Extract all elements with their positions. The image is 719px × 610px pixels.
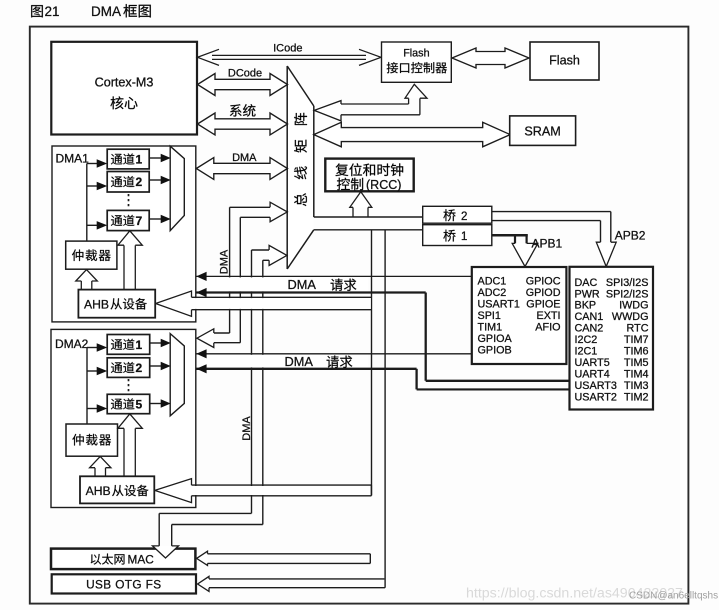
svg-text:DMA: DMA bbox=[285, 354, 314, 369]
svg-text:DMA2: DMA2 bbox=[55, 337, 89, 351]
svg-text:1: 1 bbox=[461, 231, 467, 243]
svg-text:UART4: UART4 bbox=[575, 368, 610, 380]
arrow DCode bbox=[198, 74, 288, 96]
box DMA1 channel 1 bbox=[107, 149, 149, 169]
wire DMA request 1 thin to APB1 bbox=[196, 272, 472, 281]
svg-text:AHB: AHB bbox=[86, 484, 111, 498]
arrow AHB slave 2 to channel 5 bbox=[118, 414, 142, 476]
pipe AHB slave 2 (from channel C to DMA2 AHB slave) bbox=[155, 479, 372, 503]
box DMA2 channel 5 bbox=[107, 394, 150, 413]
box DMA1 bbox=[52, 146, 196, 322]
svg-text:USART1: USART1 bbox=[478, 298, 520, 310]
svg-text:ICode: ICode bbox=[273, 42, 302, 54]
wire bridge1 to APB1 arrow (thick) bbox=[492, 234, 528, 244]
svg-text:DMA: DMA bbox=[288, 277, 317, 292]
svg-text:APB1: APB1 bbox=[532, 236, 563, 250]
box DMA2 channel 1 bbox=[107, 335, 150, 355]
svg-text:2: 2 bbox=[136, 361, 143, 375]
svg-text:IWDG: IWDG bbox=[619, 300, 648, 312]
box AHB slave 2 bbox=[80, 476, 154, 503]
svg-text:Flash: Flash bbox=[403, 48, 429, 60]
svg-text:GPIOD: GPIOD bbox=[526, 287, 561, 299]
pipe P1 hook arrow into DMA2 bbox=[197, 329, 240, 348]
box Flash bbox=[530, 42, 599, 80]
vertical label DMA (upper) bbox=[218, 249, 230, 274]
wires DMA2 channels to mux bbox=[150, 339, 171, 408]
svg-text:DAC: DAC bbox=[575, 277, 598, 289]
box SRAM bbox=[510, 116, 576, 145]
svg-text:SPI3/I2S: SPI3/I2S bbox=[606, 277, 649, 289]
svg-text:TIM1: TIM1 bbox=[478, 321, 503, 333]
box arbiter 2 bbox=[66, 424, 118, 456]
svg-text:USB OTG FS: USB OTG FS bbox=[86, 578, 161, 592]
svg-text:USART2: USART2 bbox=[575, 391, 617, 403]
arrow to RCC bbox=[350, 192, 372, 217]
arrow down into ethernet MAC bbox=[153, 546, 179, 558]
box DMA2 bbox=[51, 329, 196, 507]
wire DMA request 2 thin to APB1 bbox=[196, 349, 472, 358]
svg-text:(RCC): (RCC) bbox=[366, 178, 401, 192]
wires arbiter1 to channels bbox=[87, 159, 107, 241]
DMA request band 1 mask bbox=[205, 277, 368, 291]
box arbiter 1 bbox=[66, 241, 117, 269]
svg-text:SPI2/I2S: SPI2/I2S bbox=[606, 288, 649, 300]
svg-text:ADC2: ADC2 bbox=[478, 287, 507, 299]
svg-text:7: 7 bbox=[136, 214, 143, 228]
label DMA request 1 bbox=[288, 277, 357, 292]
svg-text:TIM5: TIM5 bbox=[624, 357, 649, 369]
svg-text:APB2: APB2 bbox=[615, 229, 646, 243]
arrow AHB slave 2 to arbiter 2 bbox=[90, 456, 111, 476]
svg-text:DCode: DCode bbox=[228, 67, 262, 79]
svg-text:AFIO: AFIO bbox=[535, 321, 560, 333]
svg-text:5: 5 bbox=[136, 397, 143, 411]
svg-text:PWR: PWR bbox=[575, 288, 600, 300]
box AHB slave 1 bbox=[78, 290, 155, 318]
svg-text:1: 1 bbox=[136, 152, 143, 166]
svg-text:I2C2: I2C2 bbox=[575, 334, 598, 346]
arrow AHB slave 1 to channel 7 bbox=[118, 231, 142, 290]
box Flash interface controller bbox=[382, 42, 452, 82]
box DMA2 channel 2 bbox=[107, 358, 150, 378]
svg-text:USART3: USART3 bbox=[575, 380, 617, 392]
svg-text:DMA: DMA bbox=[241, 416, 253, 441]
DMA request band 2 mask bbox=[205, 355, 368, 368]
svg-text:RTC: RTC bbox=[627, 323, 649, 335]
arrow right into ethernet MAC bbox=[197, 551, 208, 565]
svg-text:WWDG: WWDG bbox=[612, 311, 649, 323]
svg-text:SPI1: SPI1 bbox=[478, 310, 501, 322]
box DMA1 channel 2 bbox=[107, 172, 149, 193]
svg-text:1: 1 bbox=[136, 338, 143, 352]
box DMA1 channel 7 bbox=[107, 210, 149, 230]
vertical label DMA (lower) bbox=[241, 416, 253, 441]
svg-text:2: 2 bbox=[461, 211, 467, 223]
arrow bus matrix to SRAM bbox=[314, 122, 510, 147]
svg-text:GPIOA: GPIOA bbox=[478, 333, 513, 345]
svg-text:TIM3: TIM3 bbox=[624, 380, 649, 392]
svg-text:GPIOE: GPIOE bbox=[526, 298, 560, 310]
pipe AHB slave 1 (from channel C to DMA1 AHB slave) bbox=[156, 291, 372, 316]
pipe P3 bottom elbow to ethernet MAC bbox=[159, 513, 263, 546]
pipe P1 DMA2-busmatrix verticals bbox=[230, 207, 241, 342]
box bridge 1 bbox=[423, 225, 492, 246]
svg-text:CSDN@an6elltqshs: CSDN@an6elltqshs bbox=[629, 590, 718, 601]
wire bridge2 to APB2 arrow bbox=[492, 212, 611, 243]
svg-text:UART5: UART5 bbox=[575, 357, 610, 369]
wire DMA request 1 thick to APB2 bbox=[196, 288, 568, 381]
wire DMA request 2 thick to APB2 bbox=[196, 364, 568, 389]
mux funnel DMA1 bbox=[170, 146, 184, 230]
box bridge 2 bbox=[423, 206, 492, 223]
wire USB bottom from channel C bbox=[209, 587, 385, 589]
wire MAC U-turn pair bbox=[208, 554, 371, 564]
svg-text:Flash: Flash bbox=[549, 54, 580, 68]
svg-text:21: 21 bbox=[45, 4, 60, 19]
arrow DMA1 bus bbox=[196, 158, 287, 180]
svg-text:TIM4: TIM4 bbox=[624, 368, 649, 380]
label system bbox=[230, 104, 242, 116]
arrow APB2 bbox=[596, 242, 616, 266]
svg-text:CAN2: CAN2 bbox=[575, 323, 604, 335]
channel C vertical (system bus down) bbox=[372, 230, 386, 587]
box ethernet MAC bbox=[51, 549, 195, 570]
pipe bus matrix to Flash I/F bbox=[314, 84, 427, 121]
wires arbiter2 to channels bbox=[87, 343, 107, 424]
box RCC bbox=[325, 159, 413, 192]
bus matrix bbox=[287, 66, 314, 269]
box APB2 peripherals bbox=[570, 267, 654, 410]
arrow Flash I/F to Flash bbox=[452, 48, 529, 68]
pipe P3 elbow into bus matrix bbox=[252, 245, 287, 265]
svg-text:EXTI: EXTI bbox=[537, 310, 561, 322]
figure title bbox=[31, 4, 151, 19]
wire USB top line bbox=[209, 578, 384, 580]
svg-text:GPIOB: GPIOB bbox=[478, 344, 512, 356]
arrow right into USB OTG FS bbox=[198, 576, 209, 591]
pipe P3 verticals (AHB to peripherals/MAC) bbox=[252, 250, 263, 525]
svg-text:AHB: AHB bbox=[84, 297, 109, 311]
svg-text:CAN1: CAN1 bbox=[575, 311, 604, 323]
arrow ICode (CPU to Flash I/F) bbox=[198, 49, 382, 65]
svg-text:I2C1: I2C1 bbox=[575, 346, 598, 358]
arrow APB1 bbox=[512, 243, 538, 266]
dotted link DMA1 channels bbox=[128, 194, 130, 209]
mux funnel DMA2 bbox=[170, 334, 184, 416]
svg-text:BKP: BKP bbox=[575, 300, 597, 312]
svg-text:Cortex-M3: Cortex-M3 bbox=[95, 76, 154, 90]
svg-text:MAC: MAC bbox=[128, 552, 155, 566]
svg-text:SRAM: SRAM bbox=[524, 124, 560, 138]
arrow AHB slave 1 to arbiter 1 bbox=[76, 270, 98, 290]
box APB1 peripherals bbox=[472, 267, 567, 364]
pipe P1 elbow into bus matrix bbox=[230, 202, 288, 222]
svg-text:ADC1: ADC1 bbox=[478, 275, 507, 287]
svg-text:DMA: DMA bbox=[91, 4, 121, 19]
svg-text:TIM6: TIM6 bbox=[624, 346, 649, 358]
svg-text:DMA1: DMA1 bbox=[56, 152, 90, 166]
arrow system bus bbox=[198, 113, 288, 135]
wires DMA1 channels to mux bbox=[149, 154, 171, 223]
dotted link DMA2 channels bbox=[128, 379, 130, 393]
svg-text:DMA: DMA bbox=[232, 152, 257, 164]
svg-text:2: 2 bbox=[136, 175, 143, 189]
wire AHB system bus to bridges bbox=[314, 217, 423, 230]
svg-text:TIM7: TIM7 bbox=[624, 334, 649, 346]
svg-text:DMA: DMA bbox=[218, 249, 230, 274]
box USB OTG FS bbox=[52, 574, 196, 593]
svg-text:TIM2: TIM2 bbox=[624, 391, 649, 403]
box Cortex-M3 bbox=[51, 42, 197, 135]
svg-text:GPIOC: GPIOC bbox=[526, 275, 561, 287]
label DMA request 2 bbox=[285, 354, 353, 369]
